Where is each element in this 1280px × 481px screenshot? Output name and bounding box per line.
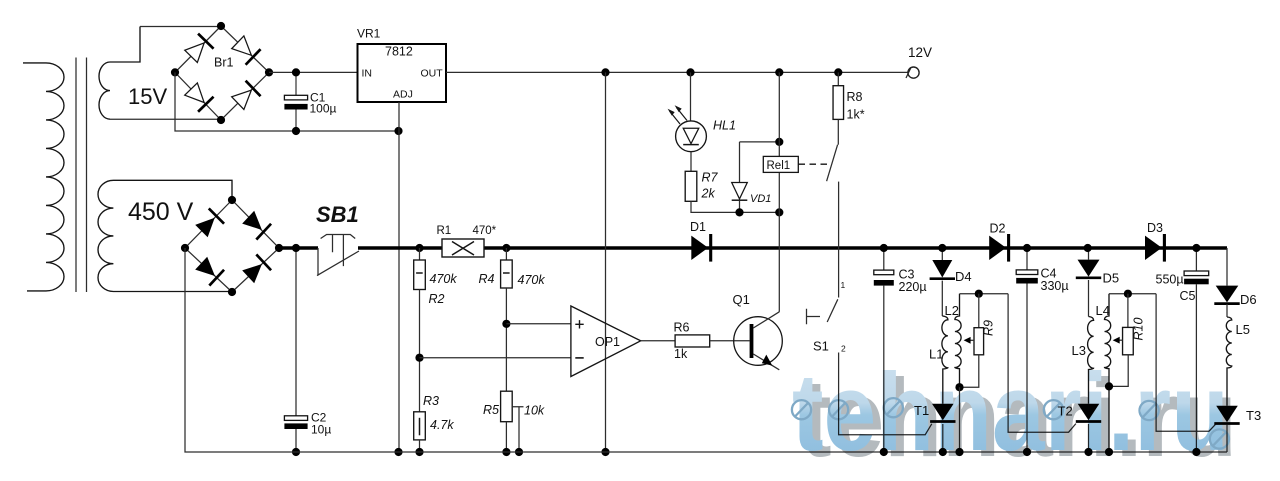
- wire bus end down to D6: [1226, 248, 1228, 286]
- node C4 ground: [1023, 448, 1031, 456]
- wire R7 bottom to VD1 rail: [691, 201, 779, 212]
- diode D3: [1145, 236, 1162, 260]
- node Br1 top: [217, 22, 225, 30]
- diode 450V-bridge upper-left: [194, 208, 224, 238]
- relay linkage dashed line: [799, 163, 829, 165]
- inductor L5: [1226, 317, 1232, 406]
- wire T1 cathode to ground rail: [942, 424, 944, 452]
- capacitor C5: [1195, 248, 1197, 452]
- inductor L2: [955, 294, 961, 388]
- node C1 top: [292, 68, 300, 76]
- resistor R1 box with X: [442, 239, 484, 257]
- node R5 wiper ground: [515, 448, 523, 456]
- wire OP1 output to R6: [641, 340, 675, 342]
- op-amp OP1 triangle: [571, 306, 641, 377]
- wire non-inverting input line: [506, 323, 571, 325]
- node ADJ bottom rail junction: [394, 448, 402, 456]
- node R5 ground: [502, 448, 510, 456]
- node bus R2 junction: [415, 244, 423, 252]
- node C3 bus: [880, 244, 888, 252]
- watermark no-entry glyphs: [792, 398, 1229, 449]
- diode D2: [989, 236, 1006, 260]
- op-amp minus sign: [575, 357, 583, 359]
- resistor R2: [419, 248, 421, 260]
- LED HL1 emission arrows: [670, 111, 681, 124]
- potentiometer R10 wiper arrow: [1117, 339, 1123, 341]
- potentiometer R10: [1123, 327, 1134, 354]
- node C2 top on bus: [292, 244, 300, 252]
- wire R4 bottom to R5 and non-inverting input: [505, 288, 507, 391]
- bridge rectifier Br1 diamond wires: [175, 26, 269, 120]
- wire Br1 right node to VR1 IN: [269, 71, 358, 73]
- node 12V rail x604: [601, 68, 609, 76]
- diode Br1 upper-right: [230, 34, 260, 64]
- node ADJ ground rail junction: [394, 127, 402, 135]
- wire main HV bus (thick): [279, 246, 1227, 249]
- wire T2 cathode to ground rail: [1088, 424, 1090, 452]
- wire R10 bottom to L4 bottom junction: [1109, 355, 1128, 387]
- switch S1 actuator: [807, 309, 821, 324]
- capacitor C4: [1026, 248, 1028, 452]
- node 12V rail R8 branch: [834, 68, 842, 76]
- wire 12V rail to HL1: [690, 72, 692, 121]
- transformer core: [76, 58, 87, 293]
- node L4 R10 bottom junction: [1105, 382, 1113, 390]
- resistor R6: [675, 335, 710, 347]
- wire bottom ground rail: [185, 248, 1227, 452]
- node R2 R3 inverting junction: [415, 354, 423, 362]
- node 450V-bridge right: [275, 244, 283, 252]
- diode Br1 lower-left: [183, 82, 213, 112]
- capacitor C2: [295, 248, 297, 452]
- potentiometer R9: [974, 328, 984, 355]
- switch SB1 actuator: [321, 235, 356, 267]
- wire Rel1 top tee to VD1: [740, 142, 780, 182]
- wire R8 to relay contact: [837, 119, 839, 144]
- node R4 R5 non-inverting junction: [502, 320, 510, 328]
- transistor Q1 base bar: [750, 324, 754, 358]
- node 450V-bridge left: [181, 244, 189, 252]
- node op-amp supply ground: [601, 448, 609, 456]
- wire 15V secondary bottom lead to bridge: [110, 118, 221, 120]
- node C1 bottom: [292, 127, 300, 135]
- svg-text:tehnari.ru: tehnari.ru: [792, 351, 1229, 474]
- thyristor T3: [1216, 406, 1238, 423]
- node D4 bus: [938, 244, 946, 252]
- wire Br1 left node to 15V ground rail: [175, 72, 398, 131]
- node 450V-bridge bottom: [228, 288, 236, 296]
- transistor Q1 emitter with arrow: [753, 354, 779, 370]
- node bus R4 junction: [502, 244, 510, 252]
- node L4 column ground: [1105, 448, 1113, 456]
- wire L2 bottom to ground rail: [959, 387, 961, 452]
- diode 450V-bridge lower-right: [241, 254, 271, 284]
- potentiometer R5: [501, 391, 513, 422]
- node C5 ground: [1192, 448, 1200, 456]
- wire T3 cathode to ground rail corner: [1226, 425, 1228, 453]
- diode Br1 lower-right: [230, 81, 260, 111]
- thyristor T2: [1078, 404, 1100, 421]
- wire R2 bottom to R3 and inverting input: [419, 290, 421, 412]
- diode 450V-bridge upper-right: [241, 209, 271, 239]
- capacitor C3: [883, 248, 885, 452]
- relay coil Rel1 box: [763, 156, 798, 172]
- node 12V rail Rel1 branch: [775, 68, 783, 76]
- wire 12V rail through Rel1 to Q1 collector: [778, 72, 780, 312]
- diode VD1: [732, 183, 748, 199]
- node R3 ground: [415, 448, 423, 456]
- wire inverting input line: [420, 357, 571, 359]
- transistor Q1 circle: [734, 317, 783, 366]
- transistor Q1 collector: [753, 312, 779, 328]
- transformer 15V secondary winding: [99, 27, 140, 120]
- bridge rectifier 450V diamond wires: [185, 200, 279, 292]
- node D5 bus: [1084, 244, 1092, 252]
- resistor R3: [414, 412, 426, 440]
- diode 450V-bridge lower-left: [194, 255, 224, 285]
- resistor R4: [505, 248, 507, 260]
- node Br1 left: [171, 68, 179, 76]
- diode D1: [691, 236, 708, 260]
- node R7 VD1 Rel1 bottom junction: [775, 208, 783, 216]
- wire channel1 tap line: [960, 294, 1076, 433]
- diode D5: [1088, 248, 1090, 260]
- switch SB1 contacts and blade: [317, 248, 359, 276]
- node C3 ground: [880, 448, 888, 456]
- voltage regulator VR1 box: [358, 44, 447, 102]
- node R9 top: [975, 290, 983, 298]
- resistor R8: [837, 72, 839, 85]
- wire VD1 bottom: [739, 201, 741, 213]
- wire R5 wiper tap: [512, 407, 523, 452]
- wire D4 to L1: [941, 281, 943, 316]
- wire R9 bottom to L2 bottom junction: [960, 355, 979, 387]
- resistor R7: [685, 171, 697, 201]
- wire relay contact to S1: [838, 182, 840, 298]
- node C2 bottom on ground: [292, 448, 300, 456]
- switch S1 blade: [827, 299, 838, 322]
- wire op-amp supply rail vertical: [605, 72, 607, 452]
- wire channel2 tap line: [1109, 294, 1215, 432]
- transformer 450V secondary winding: [98, 180, 232, 291]
- wire R6 to Q1 base: [710, 340, 750, 342]
- wire 15V secondary top lead to bridge: [140, 26, 221, 28]
- wire D6 to L5: [1226, 304, 1228, 317]
- node L2 column ground: [955, 448, 963, 456]
- wire HL1 to R7: [690, 152, 692, 172]
- inductor L3: [1088, 317, 1094, 404]
- node C5 bus: [1192, 244, 1200, 252]
- wire R9 top lead: [978, 294, 980, 328]
- LED HL1 triangle and bar: [683, 128, 699, 143]
- node T1 ground: [939, 448, 947, 456]
- terminal 12V: [908, 67, 919, 78]
- wire R10 top lead: [1127, 294, 1129, 328]
- diode D4: [941, 248, 943, 260]
- capacitor C1: [295, 72, 297, 131]
- relay contact blade: [827, 145, 838, 182]
- LED HL1 circle: [676, 121, 707, 152]
- diode D6: [1216, 286, 1239, 303]
- transformer primary winding: [23, 63, 64, 291]
- op-amp plus sign: [575, 320, 583, 328]
- node Br1 right: [265, 68, 273, 76]
- node R10 top: [1124, 290, 1132, 298]
- node 12V rail HL1 branch: [686, 68, 694, 76]
- node Br1 bottom: [217, 116, 225, 124]
- wire R5 bottom to ground rail: [505, 422, 507, 452]
- wire S1 to T1 gate: [839, 353, 932, 435]
- node C4 bus: [1023, 244, 1031, 252]
- inductor L4: [1105, 294, 1111, 452]
- potentiometer R9 wiper arrow: [968, 339, 975, 341]
- wire R3 bottom to ground rail: [419, 440, 421, 452]
- wire VR1 OUT to 12V terminal: [446, 71, 908, 73]
- node T2 ground: [1084, 448, 1092, 456]
- diode Br1 upper-left: [183, 34, 213, 64]
- node VD1 bottom junction: [735, 208, 743, 216]
- inductor L1: [942, 316, 948, 404]
- node Rel1 VD1 tee: [775, 138, 783, 146]
- wire D5 to L3: [1088, 280, 1090, 317]
- node L2 R9 bottom junction: [955, 383, 963, 391]
- wire VR1 ADJ to ground rails: [398, 102, 400, 452]
- thyristor T1: [932, 404, 954, 421]
- node 450V-bridge top: [228, 196, 236, 204]
